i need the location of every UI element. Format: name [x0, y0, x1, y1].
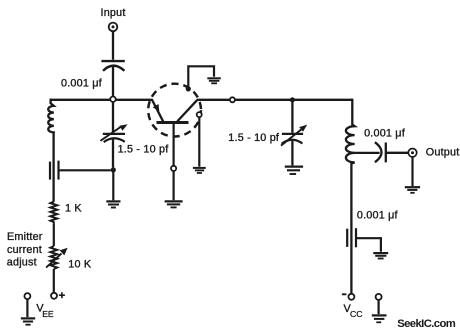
svg-text:0.001 μf: 0.001 μf	[357, 209, 399, 221]
svg-text:SeekIC.com: SeekIC.com	[397, 318, 456, 330]
svg-text:EE: EE	[42, 309, 54, 319]
svg-text:10 K: 10 K	[68, 258, 92, 270]
svg-text:CC: CC	[350, 309, 362, 319]
svg-text:0.001 μf: 0.001 μf	[364, 127, 406, 139]
svg-text:1.5 - 10 pf: 1.5 - 10 pf	[118, 143, 170, 155]
svg-text:Output: Output	[426, 147, 460, 159]
svg-text:1 K: 1 K	[65, 203, 82, 215]
svg-text:adjust: adjust	[7, 257, 37, 269]
svg-text:1.5 - 10 pf: 1.5 - 10 pf	[228, 132, 280, 144]
svg-text:current: current	[7, 244, 42, 256]
svg-text:Emitter: Emitter	[7, 231, 43, 243]
svg-text:0.001 μf: 0.001 μf	[61, 78, 103, 90]
svg-text:Input: Input	[101, 7, 126, 19]
